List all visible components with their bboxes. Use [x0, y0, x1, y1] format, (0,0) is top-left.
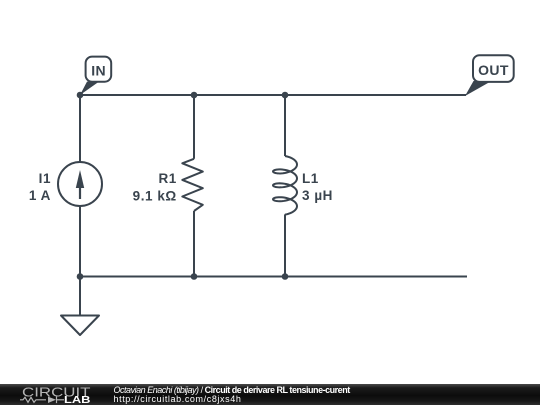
ground symbol triangle [61, 316, 99, 336]
inductor L1 coil [273, 156, 297, 215]
junction node bottom L1 [282, 273, 289, 280]
wire ground stem [79, 277, 81, 316]
wire R1 top lead [193, 95, 195, 159]
net flag OUT box [473, 55, 514, 82]
resistor R1 zigzag [182, 159, 203, 211]
wire bottom rail [80, 276, 467, 278]
wire L1 top lead [284, 95, 286, 156]
junction node bottom ground [77, 273, 84, 280]
wire top rail [80, 94, 466, 96]
svg-text:3 µH: 3 µH [302, 188, 333, 203]
svg-text:LAB: LAB [64, 395, 91, 405]
svg-text:1 A: 1 A [29, 188, 51, 203]
svg-text:9.1 kΩ: 9.1 kΩ [133, 189, 177, 204]
footer bar [0, 384, 540, 405]
wire I1 top lead [79, 95, 81, 162]
junction node top R1 [191, 92, 198, 99]
svg-text:IN: IN [91, 63, 106, 79]
CircuitLab logo [0, 384, 100, 405]
wire L1 bottom lead [284, 214, 286, 276]
svg-text:L1: L1 [302, 171, 319, 186]
net flag IN tail [80, 82, 99, 95]
svg-text:OUT: OUT [478, 62, 509, 78]
current source I1 circle [58, 162, 102, 206]
net flag OUT tail [465, 81, 492, 96]
junction node top L1 [282, 92, 289, 99]
junction node bottom R1 [191, 273, 198, 280]
footer text [114, 386, 350, 405]
junction node top-left (IN node) [77, 92, 84, 99]
svg-text:R1: R1 [158, 171, 176, 186]
wire I1 bottom lead [79, 207, 81, 277]
svg-text:I1: I1 [39, 171, 51, 186]
wire R1 bottom lead [193, 211, 195, 277]
current source I1 arrow [79, 185, 81, 199]
net flag IN box [86, 57, 112, 82]
